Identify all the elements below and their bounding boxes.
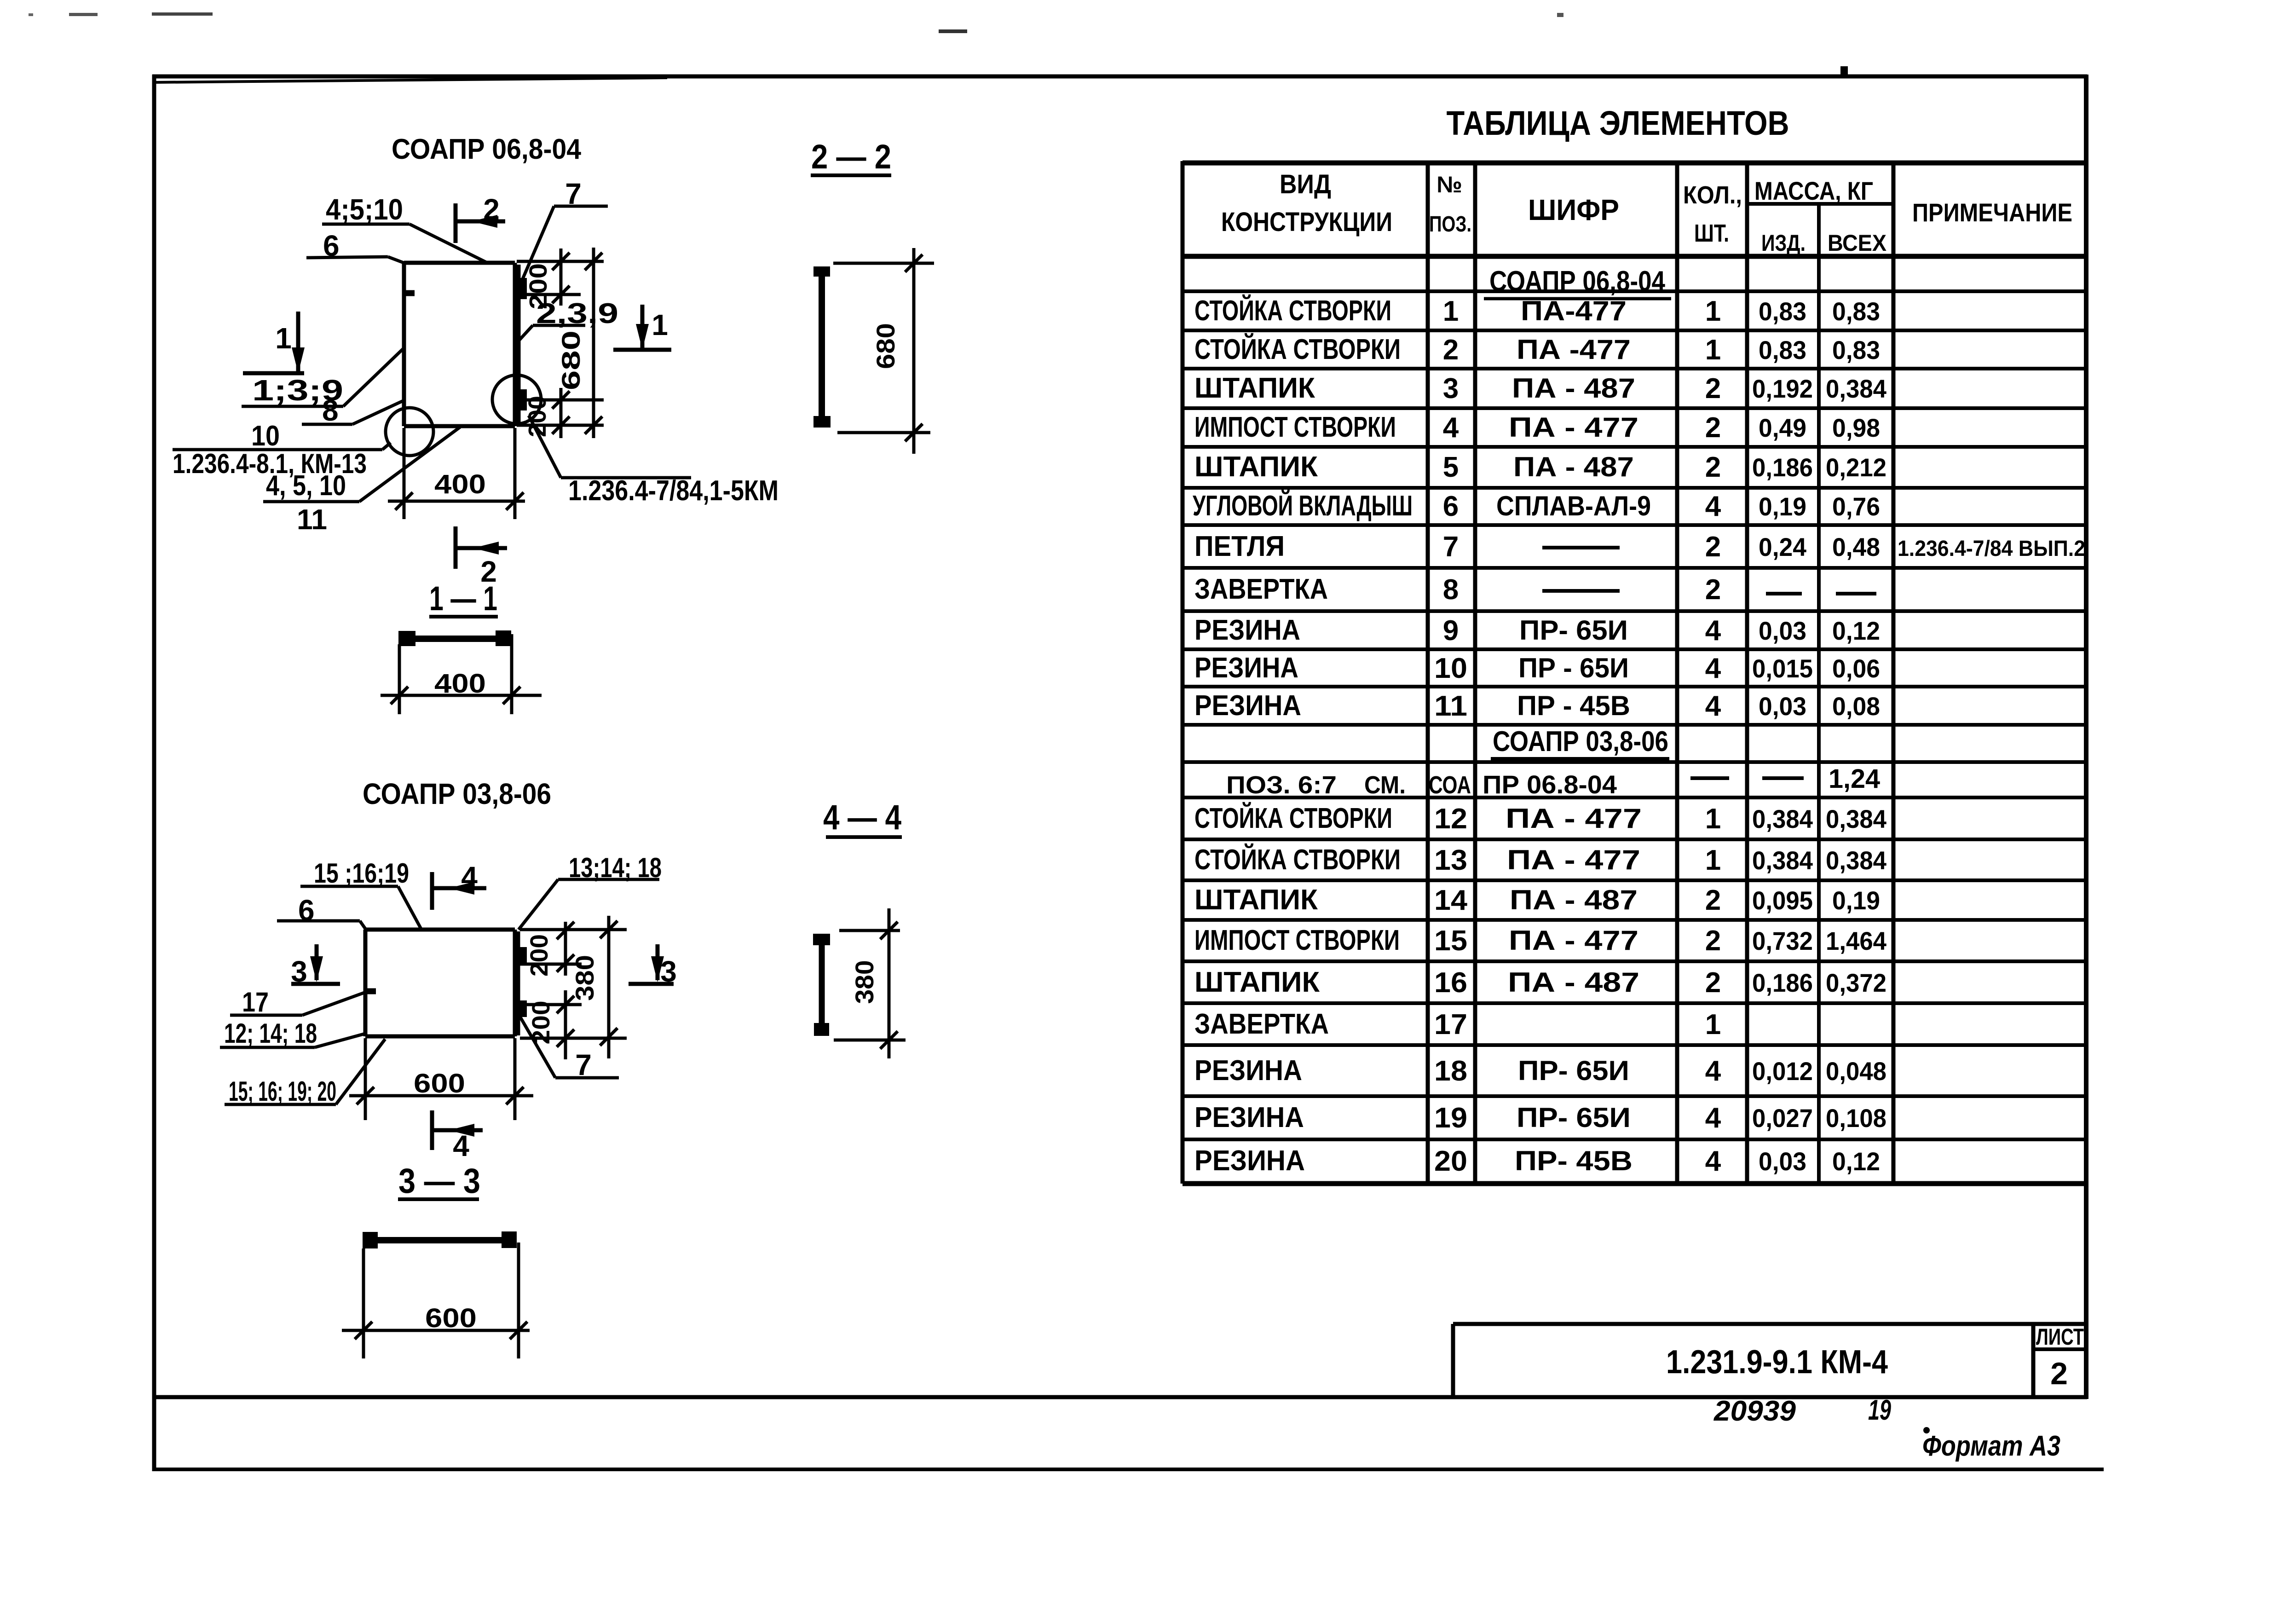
table row line 12 [1183, 723, 2086, 727]
svg-text:0,03: 0,03 [1759, 692, 1806, 721]
svg-text:СОАПР 03,8-06: СОАПР 03,8-06 [363, 777, 551, 810]
section 2-2 profile bar [813, 266, 831, 428]
svg-text:200: 200 [525, 263, 552, 309]
svg-text:МАССА, КГ: МАССА, КГ [1754, 176, 1873, 205]
svg-text:ШТАПИК: ШТАПИК [1194, 884, 1318, 916]
detail circle bottom right [492, 375, 541, 424]
svg-text:0,83: 0,83 [1832, 297, 1880, 326]
extension line rect1 mid 200 [517, 293, 581, 296]
title block sheet number 2 [2050, 1356, 2068, 1391]
table row 7 dash and note [1542, 537, 2085, 561]
table row 8 dashes [1542, 591, 1876, 594]
svg-text:РЕЗИНА: РЕЗИНА [1194, 690, 1301, 722]
svg-text:600: 600 [414, 1069, 465, 1098]
svg-text:СТОЙКА СТВОРКИ: СТОЙКА СТВОРКИ [1194, 295, 1391, 327]
label 7 drawing 2 with leader [518, 1013, 619, 1081]
table row line 13 [1183, 760, 2086, 764]
section 4-4 dimension 380 [850, 908, 898, 1058]
drawing 1 hinge mark top [519, 278, 527, 299]
table top line [1183, 161, 2086, 166]
svg-text:4 — 4: 4 — 4 [823, 798, 901, 837]
section 3-3 extension lines [363, 1243, 519, 1358]
svg-text:0,76: 0,76 [1832, 492, 1880, 521]
svg-text:1,24: 1,24 [1829, 764, 1880, 794]
svg-text:ПЕТЛЯ: ПЕТЛЯ [1194, 531, 1285, 562]
dimension 400 below rect1 [388, 428, 525, 519]
svg-text:ИЗД.: ИЗД. [1761, 230, 1806, 256]
svg-text:1: 1 [1705, 334, 1721, 366]
svg-text:ТАБЛИЦА ЭЛЕМЕНТОВ: ТАБЛИЦА ЭЛЕМЕНТОВ [1447, 104, 1789, 142]
table row line 11 [1183, 685, 2086, 688]
sheet frame right border (table right edge) [2084, 75, 2088, 1399]
svg-text:УГЛОВОЙ ВКЛАДЫШ: УГЛОВОЙ ВКЛАДЫШ [1193, 490, 1413, 522]
table row line 3 [1183, 367, 2086, 370]
svg-text:РЕЗИНА: РЕЗИНА [1194, 1145, 1305, 1177]
table row 12 Стойка створки [1194, 802, 1886, 835]
dimension 200 top right of rect2 [525, 922, 574, 977]
svg-text:0,98: 0,98 [1832, 413, 1880, 442]
label 17 with leader [230, 987, 368, 1017]
svg-text:12: 12 [1434, 803, 1467, 835]
svg-text:СТОЙКА СТВОРКИ: СТОЙКА СТВОРКИ [1194, 333, 1401, 365]
dimension 600 below rect2 [349, 1038, 533, 1120]
svg-text:ПР 06.8-04: ПР 06.8-04 [1483, 770, 1617, 799]
svg-text:10: 10 [1434, 653, 1467, 684]
header text всех [1828, 230, 1886, 256]
svg-text:0,212: 0,212 [1826, 453, 1886, 482]
label 1-1 section title [429, 579, 498, 618]
svg-text:РЕЗИНА: РЕЗИНА [1194, 1055, 1302, 1087]
label 15;16;19;20 with leader [225, 1039, 385, 1107]
extension line rect2 hinge bottom [520, 1003, 582, 1006]
svg-text:600: 600 [425, 1303, 477, 1333]
svg-text:СТОЙКА СТВОРКИ: СТОЙКА СТВОРКИ [1194, 802, 1392, 834]
svg-text:2: 2 [1443, 334, 1459, 366]
svg-text:СПЛАВ-АЛ-9: СПЛАВ-АЛ-9 [1496, 491, 1651, 521]
svg-text:10: 10 [251, 420, 280, 452]
svg-text:12; 14; 18: 12; 14; 18 [224, 1018, 317, 1049]
table row line 16 [1183, 878, 2086, 882]
svg-text:7: 7 [1443, 531, 1459, 563]
title block label Лист [2036, 1324, 2084, 1350]
svg-text:1: 1 [1705, 844, 1721, 876]
svg-text:2 — 2: 2 — 2 [811, 138, 891, 176]
label 3-3 section title [398, 1162, 480, 1201]
table row 2 Стойка створки [1194, 333, 1880, 366]
header text изд. [1761, 230, 1806, 256]
svg-text:ИМПОСТ СТВОРКИ: ИМПОСТ СТВОРКИ [1194, 925, 1400, 956]
title block box top [1453, 1322, 2086, 1326]
svg-text:680: 680 [556, 330, 585, 390]
table row line 4 [1183, 406, 2086, 410]
svg-text:200: 200 [524, 396, 551, 437]
section mark 1 right [613, 305, 671, 350]
table group heading СОАПР 03,8-06 [1491, 726, 1669, 759]
svg-text:2: 2 [1705, 373, 1721, 405]
svg-text:0,384: 0,384 [1752, 804, 1813, 833]
header text Кол. шт. [1683, 181, 1742, 247]
table row 5 Штапик [1194, 451, 1886, 483]
section mark 4 bottom [432, 1110, 483, 1162]
drawing 1 title СОАПР 06,8-04 [392, 133, 581, 165]
svg-text:1.236.4-7/84,1-5КМ: 1.236.4-7/84,1-5КМ [568, 475, 779, 507]
svg-text:СМ.: СМ. [1364, 771, 1406, 799]
table row line 15 [1183, 838, 2086, 841]
table row line 1 [1183, 289, 2086, 293]
header text Примечание [1912, 198, 2072, 227]
table row line 19 [1183, 1001, 2086, 1005]
extension line rect1 bottom [517, 424, 604, 427]
svg-text:ШТАПИК: ШТАПИК [1194, 966, 1320, 998]
dimension 200 top right of rect1 [525, 249, 570, 309]
table bottom line [1183, 1181, 2086, 1186]
svg-text:3: 3 [1443, 373, 1459, 405]
svg-text:СОАПР 03,8-06: СОАПР 03,8-06 [1493, 726, 1668, 757]
svg-text:ШТ.: ШТ. [1694, 220, 1729, 247]
svg-text:ПА - 477: ПА - 477 [1509, 925, 1638, 956]
table row line 22 [1183, 1138, 2086, 1141]
svg-text:4;5;10: 4;5;10 [326, 193, 403, 226]
svg-text:ПР - 45В: ПР - 45В [1517, 690, 1630, 721]
svg-text:2: 2 [1705, 967, 1721, 999]
svg-text:СОА: СОА [1429, 771, 1471, 799]
svg-text:2: 2 [483, 193, 500, 226]
svg-text:2: 2 [1705, 925, 1721, 957]
svg-text:8: 8 [322, 394, 339, 427]
svg-text:8: 8 [1443, 574, 1459, 606]
sheet frame top border doubled segment [153, 78, 667, 82]
table row 8 Завертка [1194, 573, 1721, 606]
table row 1 Стойка створки [1194, 295, 1880, 327]
section 1-1 profile bar [398, 630, 511, 646]
svg-text:0,372: 0,372 [1826, 968, 1886, 997]
svg-text:680: 680 [871, 323, 900, 369]
svg-text:0,186: 0,186 [1752, 453, 1813, 482]
sheet outer bottom edge line [154, 1468, 2104, 1471]
drawing 1 hinge mark bottom [519, 389, 527, 410]
svg-text:18: 18 [1434, 1055, 1467, 1087]
svg-text:1: 1 [1705, 295, 1721, 327]
svg-text:0,49: 0,49 [1759, 413, 1806, 442]
table row 11 Резина [1194, 690, 1880, 722]
svg-text:ПА-477: ПА-477 [1521, 295, 1627, 326]
title block box left [1451, 1324, 1455, 1397]
label 4,5,10 / 11 with leader [263, 427, 460, 536]
svg-text:2: 2 [1705, 884, 1721, 916]
format note Формат А3 [1922, 1430, 2060, 1462]
svg-text:ШТАПИК: ШТАПИК [1194, 372, 1315, 404]
table row line 5 [1183, 445, 2086, 449]
svg-text:20: 20 [1434, 1145, 1467, 1177]
drawing 2 title СОАПР 03,8-06 [363, 777, 551, 810]
drawing 1 frame rectangle [404, 263, 519, 426]
scan artifact dashes top edge [29, 12, 1563, 33]
title block list sub divider [2033, 1347, 2086, 1351]
section 2-2 extension lines [833, 263, 934, 433]
section 1-1 dimension 400 [381, 669, 542, 704]
header text Шифр [1528, 193, 1619, 226]
svg-text:0,384: 0,384 [1826, 374, 1886, 403]
section 2-2 dimension 680 [871, 248, 923, 454]
svg-text:15: 15 [1434, 925, 1467, 957]
table row 19 Резина [1194, 1102, 1886, 1134]
svg-text:РЕЗИНА: РЕЗИНА [1194, 614, 1300, 646]
svg-text:0,06: 0,06 [1832, 654, 1880, 683]
title block list divider vertical [2031, 1324, 2036, 1397]
svg-text:16: 16 [1434, 967, 1467, 999]
svg-text:0,83: 0,83 [1759, 335, 1806, 364]
table column line всех|Примечание [1892, 161, 1896, 1184]
table left edge [1181, 161, 1185, 1184]
drawing 2 frame rectangle [365, 930, 518, 1036]
svg-text:380: 380 [850, 960, 879, 1004]
svg-text:4: 4 [1705, 653, 1721, 684]
svg-text:ЗАВЕРТКА: ЗАВЕРТКА [1194, 573, 1328, 605]
sheet frame inner bottom border [152, 1395, 2087, 1399]
svg-text:КОЛ.,: КОЛ., [1683, 181, 1742, 209]
svg-text:РЕЗИНА: РЕЗИНА [1194, 1102, 1304, 1133]
sheet frame left border [152, 75, 156, 1471]
section 3-3 dimension 600 [342, 1303, 530, 1339]
svg-text:200: 200 [525, 934, 553, 977]
svg-text:1.236.4-7/84 ВЫП.2: 1.236.4-7/84 ВЫП.2 [1898, 537, 2085, 561]
svg-text:9: 9 [1443, 615, 1459, 647]
svg-text:0,732: 0,732 [1752, 926, 1813, 955]
label 13;14;18 with leader [519, 852, 662, 930]
svg-text:СОАПР 06,8-04: СОАПР 06,8-04 [1489, 266, 1665, 297]
table Масса sub-header divider [1747, 202, 1893, 206]
svg-text:Формат А3: Формат А3 [1922, 1430, 2060, 1462]
section 1-1 extension lines [399, 634, 512, 714]
dimension 200 bottom right of rect1 [524, 388, 570, 438]
svg-text:0,83: 0,83 [1759, 297, 1806, 326]
svg-text:ЗАВЕРТКА: ЗАВЕРТКА [1194, 1008, 1329, 1040]
dimension 680 right of rect1 [556, 248, 602, 438]
svg-text:ПА - 487: ПА - 487 [1510, 884, 1638, 915]
svg-text:17: 17 [1434, 1009, 1467, 1040]
svg-text:ИМПОСТ СТВОРКИ: ИМПОСТ СТВОРКИ [1194, 411, 1396, 443]
svg-text:РЕЗИНА: РЕЗИНА [1194, 652, 1298, 684]
table row Поз. 6:7 см. СОАПР 06.8-04 [1226, 764, 1880, 799]
svg-text:ШИФР: ШИФР [1528, 193, 1619, 226]
table row 6 Угловой вкладыш [1193, 490, 1880, 522]
svg-text:№: № [1436, 172, 1462, 197]
extension line rect1 hinge [522, 399, 604, 402]
section mark 2 top [456, 193, 505, 243]
svg-text:ПОЗ.: ПОЗ. [1429, 212, 1471, 237]
table row 4 Импост створки [1194, 411, 1880, 444]
svg-text:0,83: 0,83 [1832, 335, 1880, 364]
table row 15 Импост створки [1194, 925, 1886, 957]
svg-text:200: 200 [527, 1001, 555, 1045]
svg-text:2: 2 [1705, 531, 1721, 563]
label 1;3;9 with leader [242, 349, 403, 407]
svg-text:0,384: 0,384 [1826, 804, 1886, 833]
table group heading СОАПР 06,8-04 [1484, 266, 1671, 299]
section 3-3 profile bar [363, 1231, 517, 1248]
table header bottom line [1183, 254, 2086, 259]
label 10 with long leader [173, 420, 391, 452]
svg-text:ПА - 487: ПА - 487 [1508, 967, 1639, 998]
svg-text:0,012: 0,012 [1752, 1057, 1813, 1086]
svg-text:ВСЕХ: ВСЕХ [1828, 230, 1886, 256]
svg-text:ПА - 477: ПА - 477 [1509, 412, 1638, 443]
svg-text:0,12: 0,12 [1832, 616, 1880, 645]
table row line 6 [1183, 486, 2086, 490]
svg-text:0,048: 0,048 [1826, 1057, 1886, 1086]
svg-text:1.231.9-9.1 КМ-4: 1.231.9-9.1 КМ-4 [1666, 1344, 1888, 1381]
table row line 7 [1183, 523, 2086, 527]
label 6 with leader [306, 229, 405, 263]
svg-text:4, 5, 10: 4, 5, 10 [266, 470, 346, 502]
svg-text:ШТАПИК: ШТАПИК [1194, 451, 1318, 483]
drawing 2 hinge mark bottom [519, 1000, 527, 1017]
title block document code 1.231.9-9.1 КМ-4 [1666, 1344, 1888, 1381]
svg-text:19: 19 [1434, 1102, 1467, 1134]
svg-text:1: 1 [1443, 295, 1459, 327]
svg-text:13: 13 [1434, 844, 1467, 876]
svg-text:2: 2 [2050, 1356, 2068, 1391]
svg-text:ПА - 487: ПА - 487 [1513, 451, 1634, 482]
label 4-4 section title [823, 798, 902, 837]
svg-text:ПРИМЕЧАНИЕ: ПРИМЕЧАНИЕ [1912, 198, 2072, 227]
svg-text:КОНСТРУКЦИИ: КОНСТРУКЦИИ [1221, 207, 1392, 237]
svg-text:1: 1 [275, 322, 292, 355]
svg-text:1: 1 [1705, 803, 1721, 835]
svg-text:ПР- 65И: ПР- 65И [1519, 615, 1628, 646]
scan tick on top border [1840, 66, 1848, 76]
table row line 21 [1183, 1094, 2086, 1098]
table column line Шифр|Кол [1675, 161, 1679, 1184]
stamp number 19 [1868, 1394, 1891, 1426]
table title ТАБЛИЦА ЭЛЕМЕНТОВ [1447, 104, 1789, 142]
label 4;5;10 with leader [322, 193, 487, 263]
scan dot near stamp [1923, 1427, 1930, 1433]
table row 9 Резина [1194, 614, 1880, 647]
section 4-4 extension lines [834, 930, 906, 1040]
svg-text:0,08: 0,08 [1832, 692, 1880, 721]
svg-text:4: 4 [1705, 690, 1721, 722]
svg-text:400: 400 [434, 469, 486, 499]
table column line Вид|№ [1426, 161, 1430, 1184]
svg-text:ПОЗ. 6:7: ПОЗ. 6:7 [1226, 771, 1337, 799]
svg-text:0,24: 0,24 [1759, 532, 1806, 561]
drawing 2 hinge mark top [519, 947, 527, 964]
svg-text:ПР- 45В: ПР- 45В [1515, 1145, 1633, 1176]
svg-text:ПА - 487: ПА - 487 [1512, 373, 1635, 404]
table row 18 Резина [1194, 1055, 1886, 1087]
table row line 20 [1183, 1043, 2086, 1047]
svg-text:СОАПР 06,8-04: СОАПР 06,8-04 [392, 133, 581, 165]
label 1.236.4-7/84 1-5КМ with leader [529, 416, 779, 507]
table row 3 Штапик [1194, 372, 1886, 405]
drawing 1 latch tick on left edge [405, 290, 415, 296]
section mark 4 top [432, 861, 486, 910]
svg-text:0,19: 0,19 [1832, 886, 1880, 915]
svg-text:4: 4 [1705, 491, 1721, 522]
table row line 10 [1183, 647, 2086, 651]
svg-text:2: 2 [1705, 451, 1721, 483]
svg-text:0,12: 0,12 [1832, 1147, 1880, 1176]
svg-text:4: 4 [1705, 1102, 1721, 1134]
svg-text:4: 4 [1705, 1145, 1721, 1177]
section 4-4 profile bar [813, 934, 830, 1036]
svg-text:15 ;16;19: 15 ;16;19 [314, 858, 409, 889]
svg-text:4: 4 [1705, 615, 1721, 647]
sheet frame top border [152, 75, 2087, 79]
svg-text:17: 17 [242, 987, 269, 1017]
svg-text:2: 2 [1705, 412, 1721, 444]
dimension 380 right of rect2 [570, 916, 617, 1058]
table row 20 Резина [1194, 1145, 1880, 1177]
svg-text:4: 4 [1443, 412, 1459, 444]
svg-text:400: 400 [434, 669, 486, 699]
svg-text:380: 380 [570, 955, 599, 1001]
table row line 14 [1183, 796, 2086, 799]
svg-text:ПР- 65И: ПР- 65И [1518, 1055, 1629, 1086]
table row line 17 [1183, 918, 2086, 922]
svg-text:0,186: 0,186 [1752, 968, 1813, 997]
section mark 1 left [243, 312, 305, 373]
svg-text:0,108: 0,108 [1826, 1104, 1886, 1133]
svg-text:1: 1 [1705, 1009, 1721, 1040]
table row 17 Завертка [1194, 1008, 1721, 1040]
table row 10 Резина [1194, 652, 1880, 684]
table column line изд|всех [1817, 204, 1821, 1184]
drawing 2 latch tick on left edge [366, 988, 376, 994]
svg-text:1 — 1: 1 — 1 [429, 579, 497, 618]
svg-text:0,192: 0,192 [1752, 374, 1813, 403]
table row 16 Штапик [1194, 966, 1886, 999]
svg-text:1,464: 1,464 [1826, 926, 1886, 955]
label 12;14;18 with leader [220, 1018, 365, 1049]
table row line 8 [1183, 566, 2086, 570]
header text № поз. [1429, 172, 1471, 237]
svg-text:0,384: 0,384 [1752, 846, 1813, 875]
svg-text:0,19: 0,19 [1759, 492, 1806, 521]
svg-text:0,03: 0,03 [1759, 616, 1806, 645]
svg-text:1: 1 [652, 308, 668, 341]
table column line №|Шифр [1473, 161, 1477, 1184]
svg-text:3: 3 [660, 955, 677, 988]
label 15;16;19 with leader [300, 858, 421, 930]
svg-text:ЛИСТ: ЛИСТ [2036, 1324, 2084, 1350]
table row 14 Штапик [1194, 884, 1880, 916]
header text Масса кг [1754, 176, 1873, 205]
table row line 9 [1183, 609, 2086, 613]
svg-text:ПА -477: ПА -477 [1517, 334, 1631, 365]
dimension 200 bottom right of rect2 [527, 990, 574, 1059]
svg-text:5: 5 [1443, 451, 1459, 483]
svg-text:ПА - 477: ПА - 477 [1507, 844, 1640, 875]
svg-text:ПА - 477: ПА - 477 [1506, 803, 1642, 834]
svg-text:6: 6 [1443, 491, 1459, 522]
detail circle bottom left [386, 408, 433, 456]
svg-text:4: 4 [461, 861, 478, 894]
svg-text:11: 11 [1434, 690, 1467, 722]
svg-text:4: 4 [453, 1129, 469, 1162]
svg-text:20939: 20939 [1713, 1395, 1796, 1427]
svg-text:0,015: 0,015 [1752, 654, 1813, 683]
section mark 3 right [629, 944, 677, 988]
svg-text:СТОЙКА СТВОРКИ: СТОЙКА СТВОРКИ [1194, 844, 1401, 876]
table row 13 Стойка створки [1194, 844, 1886, 876]
section mark 2 bottom [456, 526, 507, 588]
header text Вид конструкции [1221, 169, 1392, 237]
label 1.236.4-8.1 КМ-13 [173, 448, 367, 479]
table row line 2 [1183, 329, 2086, 332]
svg-text:0,095: 0,095 [1752, 886, 1813, 915]
